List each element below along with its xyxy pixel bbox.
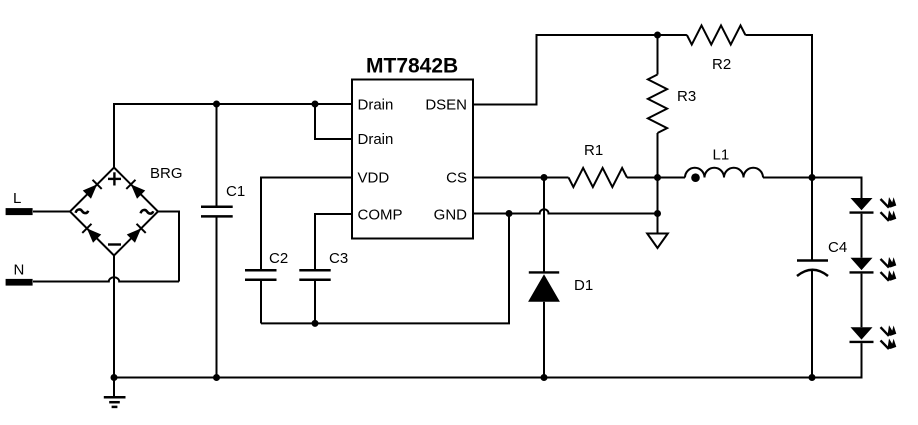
bridge diode upper-left edge (AC left to + vertex) [83,180,102,199]
svg-text:C2: C2 [269,250,288,267]
svg-text:GND: GND [434,207,468,224]
resistor R2 [687,25,746,73]
ground signal ground triangle [647,214,668,249]
capacitor C4 [797,178,847,378]
wire R1/R3 node down to GND line [657,178,659,214]
wire bridge - vertex to ground rail [113,256,115,378]
node GND line / C2C3-return junction [506,210,513,217]
svg-text:D1: D1 [574,277,593,294]
wire VDD pin to C2 [261,178,352,271]
wire GND pin line with hop over D1 wire [473,209,658,213]
svg-text:VDD: VDD [358,170,390,187]
terminal L [6,190,33,215]
svg-text:N: N [14,262,25,279]
terminal N [6,262,33,286]
svg-text:Drain: Drain [358,97,394,114]
LED LED3 [850,325,897,349]
ground earth symbol [104,378,126,407]
node C4 top junction [809,174,816,181]
bridge diode lower-right edge (- vertex to AC right) [127,224,146,243]
wire Drain2 branch [315,104,352,139]
node R1 / R3 / L1 junction [654,174,661,181]
resistor R1 [569,142,628,187]
wire bridge AC right vertex down to N line [158,212,179,282]
svg-text:COMP: COMP [358,207,403,224]
svg-text:L1: L1 [713,147,730,164]
LED LED1 [850,197,897,221]
bridge AC tilde left [76,209,89,213]
svg-text:C4: C4 [828,239,847,256]
capacitor C2 [245,250,288,323]
svg-text:R3: R3 [677,88,696,105]
svg-text:CS: CS [446,170,467,187]
svg-text:DSEN: DSEN [425,97,467,114]
wire L terminal to bridge AC left vertex [33,211,70,213]
capacitor C1 [201,104,245,378]
node Drain2 branch junction [312,101,319,108]
bridge minus mark [108,243,121,245]
svg-text:R2: R2 [712,56,731,73]
wire COMP pin to C3 [315,214,352,270]
wire R1 to L1 [627,177,685,179]
svg-text:C3: C3 [329,250,348,267]
node GND line / R3-column junction [654,210,661,217]
wire ground rail [114,377,863,379]
node CS line / D1 cathode junction [541,174,548,181]
node D1 anode / ground rail junction [541,374,548,381]
svg-text:Drain: Drain [358,131,394,148]
capacitor C3 [299,250,348,323]
resistor R3 [648,35,696,178]
wire L1 to LED string top [763,177,863,179]
bridge diode lower-left edge (- vertex to AC left) [82,224,101,243]
bridge rectifier BRG [70,165,183,256]
wire C2/C3 bottoms to GND line [261,214,509,324]
node C1 top junction [213,101,220,108]
diode D1 [528,272,593,377]
wire CS pin to R1 [473,177,569,179]
inductor L1 [685,147,763,183]
wire LED string vertical [861,178,863,378]
node C4 bottom / ground rail junction [809,374,816,381]
LED LED2 [850,257,897,281]
node ground rail / bridge junction [111,374,118,381]
wire bridge + vertex to Drain pin rail [114,104,352,168]
svg-text:BRG: BRG [150,165,183,182]
svg-text:MT7842B: MT7842B [366,55,458,78]
op-amp U1 MT7842B IC body [352,55,473,239]
wire DSEN pin up to top rail [473,35,687,105]
svg-text:C1: C1 [226,183,245,200]
svg-text:L: L [13,190,21,207]
wire R2 to right riser down to L1 output [745,35,812,178]
node C3 bottom junction [312,320,319,327]
wire N line with hop over bridge negative wire [33,277,179,281]
svg-text:R1: R1 [584,142,603,159]
bridge plus mark [108,172,121,185]
node R3 top junction [654,32,661,39]
wire CS junction down to D1 cathode [543,178,545,273]
bridge diode upper-right edge (AC right to + vertex) [126,180,145,199]
bridge AC tilde right [141,210,154,214]
node C1 bottom junction [213,374,220,381]
